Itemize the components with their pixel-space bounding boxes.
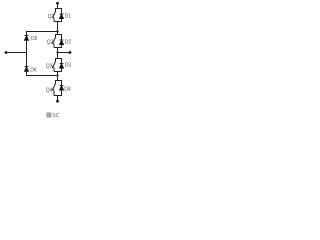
svg-text:D4: D4 [64, 87, 71, 93]
svg-text:D2: D2 [65, 40, 72, 46]
svg-text:Q1: Q1 [48, 14, 55, 20]
svg-text:D1: D1 [65, 14, 72, 20]
svg-text:D3: D3 [65, 63, 72, 69]
svg-text:Q4: Q4 [46, 88, 53, 94]
svg-text:Q2: Q2 [47, 40, 54, 46]
svg-text:5C: 5C [53, 113, 60, 119]
svg-text:D6: D6 [30, 68, 37, 74]
svg-text:D5: D5 [31, 36, 38, 42]
svg-text:Q3: Q3 [46, 64, 53, 70]
